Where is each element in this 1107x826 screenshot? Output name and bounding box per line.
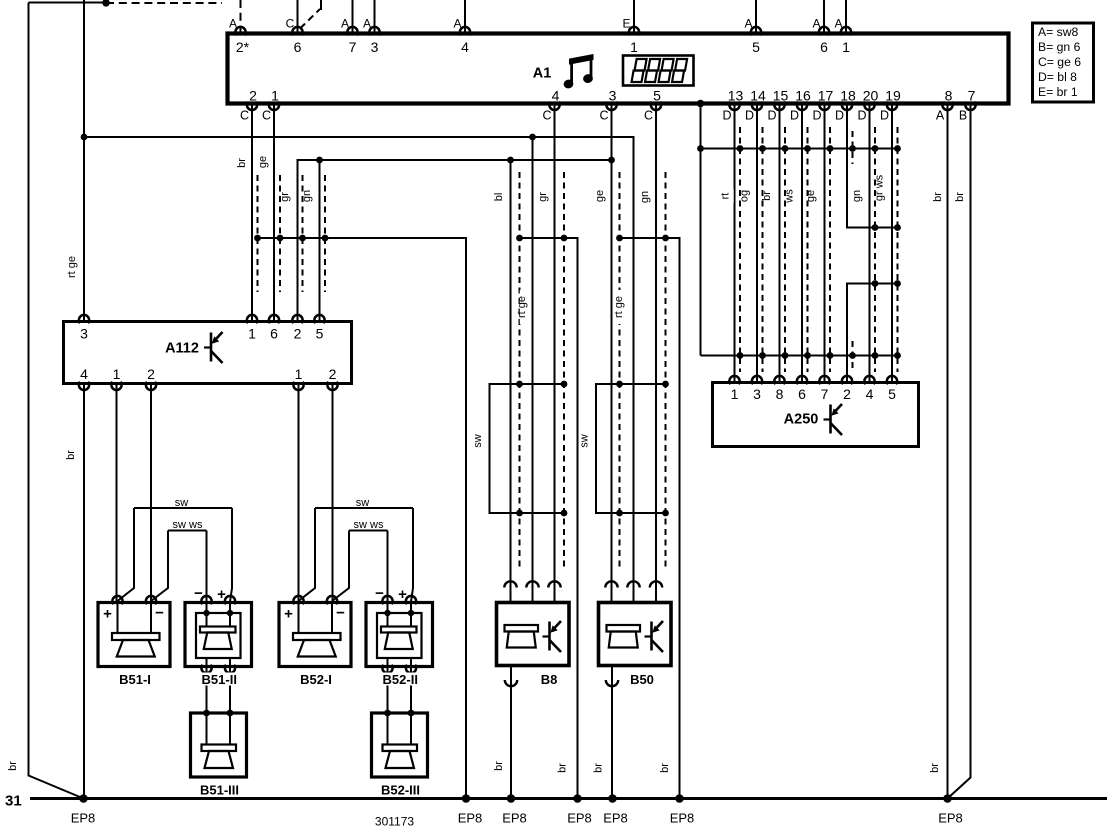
svg-text:EP8: EP8 [458,811,483,826]
svg-text:rt ge: rt ge [613,296,625,318]
svg-text:1: 1 [113,366,121,382]
svg-text:br: br [932,192,944,202]
svg-text:5: 5 [752,39,760,55]
svg-text:20: 20 [863,88,879,104]
svg-text:A: A [936,109,945,123]
svg-text:B51-I: B51-I [119,672,151,687]
svg-text:br: br [659,763,671,773]
svg-text:4: 4 [552,88,560,104]
svg-text:6: 6 [820,39,828,55]
svg-text:rt: rt [720,193,732,200]
svg-text:D: D [880,109,889,123]
svg-text:B50: B50 [630,672,654,687]
svg-text:1: 1 [271,88,279,104]
svg-text:A: A [341,17,349,31]
svg-text:5: 5 [888,386,896,402]
svg-text:D: D [745,109,754,123]
svg-text:B52-I: B52-I [300,672,332,687]
svg-text:7: 7 [821,386,829,402]
svg-text:D: D [857,109,866,123]
svg-text:B= gn 6: B= gn 6 [1038,40,1081,54]
svg-text:C: C [286,17,295,31]
svg-text:EP8: EP8 [670,811,695,826]
svg-text:+: + [398,586,407,603]
svg-text:gr: gr [537,192,549,202]
svg-text:3: 3 [371,39,379,55]
svg-text:og: og [739,190,751,202]
svg-text:2: 2 [329,366,337,382]
svg-text:br: br [7,761,19,771]
svg-text:−: − [194,585,203,602]
svg-text:6: 6 [270,326,278,342]
svg-text:31: 31 [5,793,22,810]
svg-text:rt ge: rt ge [66,256,78,278]
svg-text:A1: A1 [533,66,552,82]
svg-text:rt ge: rt ge [516,296,528,318]
svg-text:A112: A112 [165,341,199,357]
svg-text:EP8: EP8 [502,811,527,826]
svg-text:ge: ge [805,190,817,202]
svg-text:8: 8 [776,386,784,402]
svg-text:1: 1 [248,326,256,342]
svg-text:B52-III: B52-III [381,783,420,798]
svg-text:gn: gn [301,190,313,202]
svg-text:EP8: EP8 [71,811,96,826]
svg-text:br: br [493,761,505,771]
svg-text:6: 6 [798,386,806,402]
svg-text:1: 1 [295,366,303,382]
svg-text:gn: gn [639,191,651,203]
svg-text:2: 2 [843,386,851,402]
svg-text:E: E [622,17,630,31]
svg-text:13: 13 [728,88,744,104]
svg-text:C: C [262,109,271,123]
svg-text:br: br [954,192,966,202]
svg-text:16: 16 [795,88,811,104]
svg-text:D: D [767,109,776,123]
svg-text:A: A [812,17,820,31]
svg-text:EP8: EP8 [603,811,628,826]
svg-text:B: B [959,109,967,123]
svg-text:br: br [236,158,248,168]
svg-text:−: − [155,605,164,622]
svg-text:2: 2 [147,366,155,382]
svg-text:sw: sw [472,434,484,448]
svg-text:5: 5 [653,88,661,104]
svg-text:ge: ge [594,190,606,202]
svg-text:br: br [929,763,941,773]
svg-text:gn: gn [851,190,863,202]
svg-text:C: C [644,109,653,123]
svg-text:17: 17 [818,88,834,104]
svg-text:bl: bl [493,193,505,202]
svg-text:sw: sw [356,497,370,509]
svg-text:C: C [240,109,249,123]
svg-text:4: 4 [866,386,874,402]
svg-text:1: 1 [630,39,638,55]
svg-text:3: 3 [753,386,761,402]
svg-text:14: 14 [750,88,766,104]
svg-text:301173: 301173 [375,815,414,826]
svg-text:−: − [375,585,384,602]
svg-text:sw: sw [579,434,591,448]
svg-text:gr: gr [279,192,291,202]
svg-text:B51-II: B51-II [202,672,237,687]
svg-text:gr ws: gr ws [874,174,886,201]
svg-text:EP8: EP8 [567,811,592,826]
svg-text:A: A [744,17,752,31]
svg-text:D: D [722,109,731,123]
svg-text:19: 19 [885,88,901,104]
svg-text:15: 15 [773,88,789,104]
svg-text:br: br [65,450,77,460]
svg-text:7: 7 [968,88,976,104]
svg-text:D: D [835,109,844,123]
svg-text:A: A [453,17,461,31]
svg-text:B52-II: B52-II [383,672,418,687]
svg-text:E= br 1: E= br 1 [1038,85,1078,99]
svg-text:br: br [593,763,605,773]
svg-text:B8: B8 [541,672,558,687]
svg-text:1: 1 [842,39,850,55]
svg-text:D: D [812,109,821,123]
svg-text:3: 3 [609,88,617,104]
svg-text:D: D [790,109,799,123]
svg-text:6: 6 [294,39,302,55]
svg-text:ge: ge [257,156,269,168]
svg-text:C: C [542,109,551,123]
svg-text:A: A [834,17,842,31]
svg-text:ws: ws [784,189,796,204]
svg-text:D= bl 8: D= bl 8 [1038,70,1077,84]
svg-text:2*: 2* [236,39,250,55]
svg-text:br: br [557,763,569,773]
svg-text:A: A [363,17,371,31]
svg-text:7: 7 [349,39,357,55]
svg-text:2: 2 [249,88,257,104]
svg-text:3: 3 [80,326,88,342]
svg-text:A: A [229,17,237,31]
svg-text:C: C [599,109,608,123]
svg-text:4: 4 [80,366,88,382]
svg-text:sw ws: sw ws [173,519,203,531]
svg-text:−: − [336,605,345,622]
svg-text:B51-III: B51-III [200,783,239,798]
svg-text:sw ws: sw ws [354,519,384,531]
svg-text:18: 18 [840,88,856,104]
svg-text:5: 5 [316,326,324,342]
svg-text:A250: A250 [784,412,819,428]
svg-text:8: 8 [945,88,953,104]
svg-text:A= sw8: A= sw8 [1038,25,1079,39]
svg-text:1: 1 [731,386,739,402]
svg-text:EP8: EP8 [938,811,963,826]
svg-text:+: + [217,586,226,603]
svg-text:C= ge 6: C= ge 6 [1038,55,1081,69]
svg-text:br: br [761,191,773,201]
svg-text:4: 4 [461,39,469,55]
svg-text:2: 2 [294,326,302,342]
svg-text:+: + [284,606,293,623]
svg-text:+: + [103,606,112,623]
svg-text:sw: sw [175,497,189,509]
